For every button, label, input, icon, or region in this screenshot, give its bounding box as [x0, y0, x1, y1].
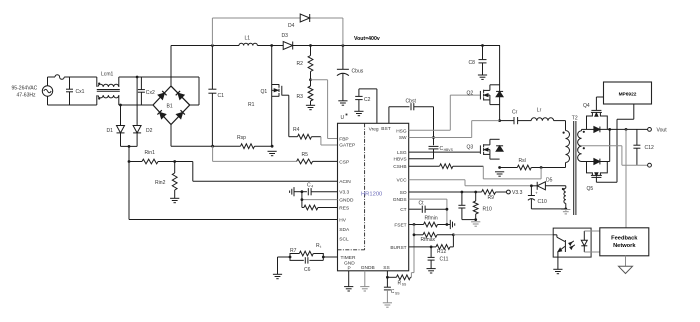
- bridge rectifier B1: [153, 86, 190, 125]
- terminal Vout return: [648, 163, 652, 167]
- node top AC at D2: [136, 76, 139, 79]
- resistor R7 with C6 parallel: [278, 243, 324, 273]
- svg-text:R4: R4: [293, 127, 300, 133]
- svg-text:Rsp: Rsp: [237, 135, 246, 141]
- diode D3: [282, 33, 293, 50]
- svg-text:Q1: Q1: [261, 89, 268, 95]
- svg-text:GNDD: GNDD: [339, 198, 354, 204]
- wire GNDB stub: [364, 271, 366, 287]
- resistor CSHB sense: [409, 164, 484, 169]
- resistor Rsp: [213, 135, 273, 149]
- ground C2: [354, 111, 363, 115]
- body diode Q4: [594, 127, 600, 133]
- node VCC C10: [530, 184, 533, 187]
- wire SS stub: [386, 271, 388, 278]
- resistor Rsl: [500, 158, 566, 170]
- resistor R9: [482, 190, 507, 201]
- capacitor C11: [428, 247, 449, 269]
- node V3.3: [301, 190, 304, 193]
- svg-text:GND: GND: [344, 260, 355, 266]
- svg-text:Q3: Q3: [467, 145, 474, 151]
- diode D1: [107, 105, 125, 146]
- label U1: [341, 114, 348, 121]
- svg-text:B1: B1: [167, 103, 173, 109]
- wire secondary bottom rail: [582, 129, 610, 161]
- resistor R12: [431, 235, 453, 255]
- polarized capacitor Cbus: [337, 46, 364, 101]
- transistor Q2: [467, 46, 500, 121]
- capacitor C12: [633, 129, 654, 165]
- svg-text:Q5: Q5: [587, 186, 594, 192]
- capacitor C2: [355, 89, 370, 111]
- svg-text:ACIN: ACIN: [339, 179, 351, 185]
- wire Q1 gate to R4: [288, 95, 290, 137]
- label Vout=400v: [354, 36, 380, 42]
- transformer T2 secondary: [578, 129, 585, 161]
- ground R3: [306, 105, 315, 109]
- IC left pin labels: [339, 136, 356, 271]
- capacitor Cx2: [138, 77, 155, 105]
- svg-text:95-264VAC: 95-264VAC: [12, 86, 38, 92]
- wire V3.3 gnd link: [294, 191, 302, 193]
- node sec top mid: [608, 128, 611, 131]
- node divider mid: [309, 78, 312, 81]
- node FSET: [413, 223, 416, 226]
- wire bridge minus down: [171, 125, 213, 147]
- svg-text:D3: D3: [282, 33, 289, 39]
- svg-text:V3.3: V3.3: [512, 190, 523, 196]
- transistor Q1: [248, 46, 289, 147]
- svg-text:D4: D4: [288, 23, 295, 29]
- wire CT: [409, 208, 422, 210]
- node rail C8: [481, 44, 484, 47]
- bridge diode top-left: [158, 91, 166, 99]
- svg-text:Network: Network: [613, 243, 636, 249]
- wire AC line bottom: [48, 104, 97, 106]
- ground FSET sideways: [450, 220, 454, 229]
- svg-text:Feedback: Feedback: [611, 236, 638, 242]
- ground aux: [561, 210, 570, 214]
- resistor Rin1: [129, 150, 175, 164]
- wire BST: [389, 107, 410, 124]
- ground C11: [427, 269, 436, 273]
- svg-text:D1: D1: [107, 128, 114, 134]
- svg-text:HBVS: HBVS: [394, 157, 407, 163]
- wire ACIN: [175, 162, 338, 182]
- svg-text:Vreg: Vreg: [369, 127, 379, 133]
- svg-text:T2: T2: [572, 116, 578, 122]
- transformer T2 primary: [554, 116, 578, 168]
- svg-text:Lcm1: Lcm1: [101, 72, 114, 78]
- ground R7 left: [273, 257, 282, 279]
- svg-text:Rin2: Rin2: [155, 180, 166, 186]
- transistor Q5: [587, 162, 608, 192]
- wire Vout to feedback: [625, 129, 627, 227]
- resistor R2: [297, 46, 313, 80]
- wire CSP sense: [213, 146, 297, 161]
- IC U1 HR1200 body: [338, 123, 409, 270]
- node CT gnd: [446, 208, 449, 211]
- node bottom AC at D1: [119, 104, 122, 107]
- svg-text:R10: R10: [483, 207, 492, 213]
- svg-text:SS: SS: [395, 291, 400, 295]
- resistor R10: [473, 192, 492, 220]
- node SO cap: [461, 191, 464, 194]
- ground Css: [383, 303, 392, 307]
- svg-text:Vout=400v: Vout=400v: [354, 36, 380, 42]
- earth ground feedback: [619, 266, 633, 273]
- svg-text:BURST: BURST: [390, 245, 406, 251]
- node R7 right: [322, 256, 325, 259]
- svg-text:GNDS: GNDS: [393, 197, 407, 203]
- svg-text:L1: L1: [245, 35, 251, 41]
- svg-text:TIMER: TIMER: [341, 255, 356, 261]
- node SW-CHBVS: [432, 136, 435, 139]
- svg-text:4: 4: [311, 184, 313, 188]
- wire Lr to T2: [0, 0, 1, 1]
- svg-text:CT: CT: [400, 207, 406, 213]
- svg-text:Cx2: Cx2: [146, 90, 155, 96]
- wire GNDD: [302, 192, 338, 208]
- wire FSET to Rfmax: [413, 225, 415, 273]
- ground R10: [471, 222, 480, 226]
- node Rfmax left: [413, 233, 416, 236]
- wire opto to feedback top: [584, 230, 600, 232]
- wire HV run: [129, 162, 338, 220]
- svg-text:CSP: CSP: [339, 159, 349, 165]
- wire SW: [409, 121, 472, 138]
- wire bridge plus up: [170, 46, 172, 87]
- resistor R5: [297, 152, 338, 164]
- node FSET gnd: [446, 223, 449, 226]
- wire Cr to Lr: [518, 120, 532, 122]
- IC right pin labels: [390, 128, 407, 251]
- wire CHBVS to HBVS pin: [409, 149, 434, 159]
- svg-text:SCL: SCL: [339, 237, 349, 243]
- svg-text:CSHB: CSHB: [393, 164, 406, 170]
- wire HSG: [409, 95, 481, 130]
- resistor RES: [302, 205, 338, 210]
- node SS: [386, 276, 389, 279]
- node Rfmax right: [452, 233, 455, 236]
- node PFC return C1: [211, 145, 214, 148]
- IC top pin labels: [369, 126, 391, 132]
- svg-text:C10: C10: [538, 199, 547, 205]
- resistor R4: [289, 127, 321, 139]
- ground Q1 source: [268, 151, 277, 155]
- capacitor C4: [302, 182, 338, 195]
- svg-text:Cbst: Cbst: [406, 98, 417, 104]
- svg-text:U: U: [341, 115, 345, 121]
- svg-text:VCC: VCC: [396, 178, 407, 184]
- svg-text:C1: C1: [218, 93, 225, 99]
- svg-text:C6: C6: [304, 267, 311, 273]
- node R10 bottom: [474, 218, 477, 221]
- wire BURST: [409, 246, 431, 248]
- capacitor Cx1: [66, 77, 85, 105]
- svg-text:V3.3: V3.3: [339, 190, 349, 196]
- node R7 left: [289, 256, 292, 259]
- node D1D2 mid: [128, 145, 131, 148]
- svg-text:Rfmax: Rfmax: [421, 237, 436, 243]
- svg-text:GNDB: GNDB: [361, 265, 375, 271]
- node rail C1: [211, 44, 214, 47]
- resistor Rin2: [155, 162, 177, 199]
- svg-text:47-63Hz: 47-63Hz: [17, 93, 37, 99]
- svg-text:R9: R9: [488, 195, 495, 201]
- diode D2: [133, 77, 153, 146]
- capacitor C8: [469, 46, 487, 76]
- wire choke to bridge top: [119, 77, 199, 105]
- ground opto: [553, 269, 562, 273]
- svg-text:C8: C8: [469, 60, 476, 66]
- svg-text:C2: C2: [364, 97, 371, 103]
- node rail Q1: [270, 44, 273, 47]
- transistor Q3: [467, 139, 500, 159]
- ground V3.3 sideways: [290, 187, 294, 196]
- svg-text:R5: R5: [302, 152, 309, 158]
- svg-text:Rfmin: Rfmin: [425, 215, 438, 221]
- svg-text:SS: SS: [402, 283, 407, 287]
- IC U2 MP6922: [604, 82, 652, 104]
- bridge diode top-right: [176, 91, 184, 99]
- capacitor Ct: [419, 201, 447, 213]
- wire mid to Cr: [472, 120, 514, 122]
- svg-text:R12: R12: [437, 249, 446, 255]
- wire VCC: [409, 180, 532, 186]
- node SO R10: [474, 191, 477, 194]
- diode D5: [531, 177, 565, 190]
- svg-text:P: P: [348, 266, 351, 272]
- common-mode choke Lcm1: [97, 72, 120, 106]
- wire FSET: [409, 224, 414, 226]
- fuse F1: [55, 75, 64, 80]
- svg-text:MP6922: MP6922: [619, 91, 637, 97]
- node Rin1 left: [128, 160, 131, 163]
- wire main boost rail: [171, 45, 500, 47]
- resistor R3: [297, 80, 313, 106]
- polarized capacitor C10: [528, 186, 547, 209]
- AC source 95-264VAC 47-63Hz: [12, 77, 53, 105]
- optocoupler U3: [553, 228, 591, 257]
- ground C8: [478, 75, 487, 79]
- ground P: [344, 287, 353, 291]
- body diode Q3: [496, 146, 503, 151]
- wire P stub: [348, 271, 350, 287]
- node rail R2: [309, 44, 312, 47]
- feedback network box: [600, 228, 649, 256]
- wire Vreg: [359, 89, 377, 123]
- diode D4: [288, 14, 310, 29]
- svg-text:Rsl: Rsl: [519, 158, 526, 164]
- svg-text:FBP: FBP: [339, 136, 348, 142]
- svg-text:Cbus: Cbus: [352, 69, 364, 75]
- svg-text:BST: BST: [381, 126, 390, 132]
- node rail Cbus: [342, 44, 345, 47]
- svg-text:Q2: Q2: [467, 90, 474, 96]
- wire FBP sense: [311, 80, 338, 139]
- capacitor CHBVS: [429, 146, 454, 152]
- wire opto to feedback bottom: [584, 251, 600, 253]
- svg-text:Rin1: Rin1: [145, 150, 156, 156]
- wire SO row: [409, 191, 482, 193]
- wire R4 to GATEP: [321, 137, 338, 145]
- wire Rss to FSET net: [411, 273, 414, 278]
- svg-text:HV: HV: [339, 217, 346, 223]
- svg-text:GATEP: GATEP: [339, 142, 355, 148]
- ground GNDB: [360, 287, 369, 291]
- svg-text:FSET: FSET: [394, 222, 406, 228]
- svg-text:SS: SS: [383, 265, 389, 271]
- svg-text:C11: C11: [440, 256, 449, 262]
- inductor Lr: [531, 108, 553, 121]
- svg-text:R7: R7: [290, 248, 297, 254]
- svg-text:D2: D2: [146, 128, 153, 134]
- resistor Rss: [387, 275, 411, 287]
- svg-text:RES: RES: [339, 205, 349, 211]
- svg-text:R2: R2: [297, 61, 304, 67]
- capacitor C9: [458, 192, 465, 220]
- node Rsl CSHB: [540, 166, 543, 169]
- svg-text:Vout: Vout: [657, 127, 668, 133]
- svg-text:D5: D5: [546, 177, 553, 183]
- body diode Q2: [496, 91, 503, 96]
- capacitor C1: [208, 46, 224, 147]
- svg-text:C12: C12: [645, 145, 654, 151]
- svg-text:SO: SO: [400, 190, 407, 196]
- wire choke to bridge bottom: [119, 104, 153, 106]
- ground Cbus: [338, 101, 347, 105]
- svg-text:R3: R3: [297, 94, 304, 100]
- resistor Rfmin: [414, 215, 447, 227]
- wire LSG: [409, 151, 481, 153]
- wire feedback to earth: [625, 256, 627, 266]
- node BURST: [430, 246, 433, 249]
- capacitor Cr: [512, 110, 518, 125]
- capacitor Css: [384, 277, 400, 303]
- svg-text:SDA: SDA: [339, 227, 350, 233]
- transistor Q4: [583, 97, 607, 129]
- wire cap to R10 bottom: [462, 219, 476, 221]
- node Q1 source: [271, 145, 274, 148]
- svg-text:LSG: LSG: [397, 150, 407, 156]
- svg-text:Q4: Q4: [583, 103, 590, 109]
- inductor L1: [239, 35, 257, 45]
- svg-text:R1: R1: [248, 102, 255, 108]
- wire CSHB route: [483, 166, 541, 179]
- node Q3 source: [498, 166, 501, 169]
- resistor Rfmax: [414, 232, 453, 243]
- svg-text:HSG: HSG: [396, 128, 407, 134]
- svg-text:Lr: Lr: [537, 108, 542, 114]
- transformer T2 aux winding: [562, 186, 566, 209]
- wire C10 to aux return: [531, 208, 567, 211]
- terminal Vout: [648, 127, 668, 133]
- body diode Q5: [594, 159, 600, 165]
- ground Q3: [495, 172, 504, 176]
- svg-text:HR1200: HR1200: [361, 191, 382, 197]
- ground Rin2: [170, 198, 179, 202]
- wire D4 bypass rail: [212, 18, 343, 46]
- wire center tap out: [582, 146, 648, 165]
- svg-text:SW: SW: [399, 135, 407, 141]
- svg-text:Cx1: Cx1: [76, 89, 85, 95]
- wire D1-D2 junction bar: [121, 145, 138, 147]
- wire Cbst to SW node: [414, 107, 434, 146]
- svg-text:Cr: Cr: [512, 110, 518, 116]
- terminal V3.3: [507, 190, 523, 196]
- transformer T2 core: [574, 121, 576, 215]
- wire BURST to opto: [453, 234, 553, 236]
- wire opto emitter gnd: [557, 257, 559, 269]
- bridge diode bottom-left: [157, 110, 165, 118]
- wire AC line top: [48, 76, 97, 78]
- node GNDD: [301, 198, 304, 201]
- svg-text:Ct: Ct: [419, 201, 425, 207]
- node Rin div: [173, 160, 176, 163]
- svg-text:HBVS: HBVS: [444, 148, 454, 152]
- wire Q5 gate route: [596, 104, 633, 182]
- wire secondary top rail: [582, 128, 648, 130]
- bridge diode bottom-right: [176, 110, 184, 118]
- node Vout: [625, 128, 628, 131]
- node half-bridge mid: [498, 119, 501, 122]
- wire FSET gnd link: [447, 224, 450, 226]
- wire TIMER: [323, 256, 337, 258]
- capacitor Cbst: [406, 98, 417, 110]
- svg-text:t: t: [320, 245, 321, 249]
- wire D1D2 to Rin1 node: [128, 146, 130, 161]
- wire GNDS: [409, 199, 447, 224]
- IC bottom pin labels: [361, 265, 390, 271]
